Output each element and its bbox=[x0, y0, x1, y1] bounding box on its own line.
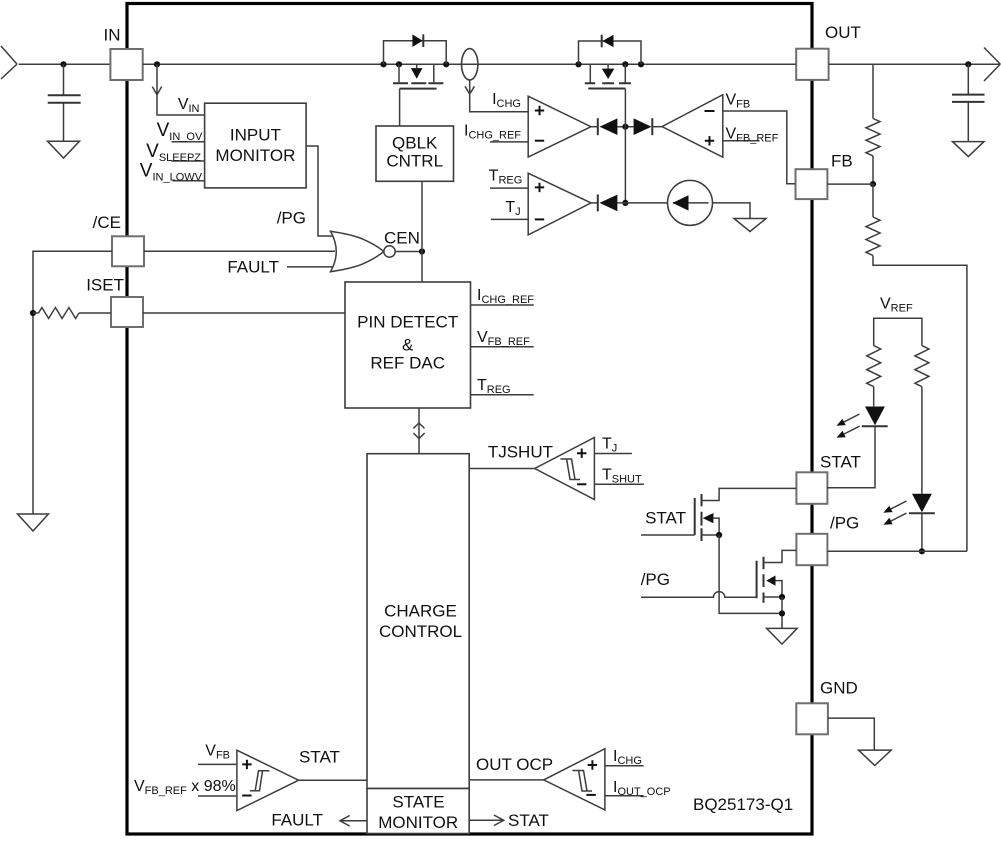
IC boundary BQ25173-Q1 bbox=[127, 4, 812, 835]
wire TJSHUT bbox=[469, 468, 535, 470]
svg-text:MONITOR: MONITOR bbox=[215, 146, 295, 165]
stub VSLEEPZ bbox=[172, 160, 205, 162]
resistor R-PG-LED bbox=[915, 346, 929, 387]
svg-text:STAT: STAT bbox=[508, 811, 549, 830]
node rail x578.5 bbox=[575, 61, 581, 67]
diode D4 bbox=[597, 194, 599, 211]
arrow STAT out bbox=[469, 819, 503, 821]
node /PG net bbox=[919, 548, 925, 554]
wire FB node down bbox=[872, 184, 874, 217]
node Q3 source bbox=[716, 532, 722, 538]
wire /PG gate with hop bbox=[641, 592, 757, 598]
node rail x383.5 bbox=[380, 61, 386, 67]
stub TREG bbox=[490, 187, 528, 189]
svg-text:FB: FB bbox=[831, 152, 853, 171]
wire node to source bbox=[617, 202, 667, 204]
current sense element bbox=[462, 49, 478, 80]
stub IOUT_OCP bbox=[605, 795, 644, 797]
wire R to LED2 bbox=[921, 387, 923, 494]
wire /PG to gate bbox=[306, 146, 334, 236]
svg-text:CEN: CEN bbox=[384, 229, 420, 248]
diode D3 bbox=[634, 118, 652, 135]
ground fets bbox=[767, 628, 798, 644]
pin IN bbox=[110, 49, 142, 80]
pin GND bbox=[796, 703, 828, 734]
node rail x446.2 bbox=[443, 61, 449, 67]
ground input cap bbox=[48, 141, 80, 158]
wire Q4 source down bbox=[781, 597, 783, 628]
wire Q1 gate bbox=[399, 89, 401, 126]
stub VFB_REF x98 bbox=[198, 795, 237, 797]
svg-text:STATE: STATE bbox=[392, 793, 444, 812]
wire STAT out bbox=[299, 779, 367, 781]
wire main rail IN to OUT bbox=[143, 63, 797, 65]
wire CEN vertical bbox=[421, 181, 423, 282]
svg-text:MONITOR: MONITOR bbox=[378, 813, 458, 832]
svg-text:INPUT: INPUT bbox=[230, 126, 281, 145]
LED D7 /PG bbox=[912, 494, 932, 513]
svg-text:FAULT: FAULT bbox=[271, 811, 323, 830]
wire ICHG sense bbox=[470, 80, 529, 112]
block STATE MONITOR bbox=[367, 789, 469, 834]
stub VFB stat bbox=[198, 763, 237, 765]
wire Q2 diode loop bbox=[579, 41, 642, 64]
wire gate node vertical bbox=[624, 89, 626, 203]
wire U4 out bbox=[591, 202, 598, 204]
block QBLK CNTRL bbox=[376, 126, 454, 181]
stub VIN_LOWV bbox=[173, 180, 205, 182]
diode D1 bbox=[412, 34, 422, 47]
input terminal arrow bbox=[1, 46, 17, 79]
output terminal arrow bbox=[984, 48, 1000, 82]
block CHARGE CONTROL bbox=[367, 454, 469, 789]
pin /CE bbox=[112, 236, 144, 266]
comparator U5 VFB bbox=[662, 95, 723, 158]
svg-text:STAT: STAT bbox=[645, 509, 686, 528]
stub TJ bbox=[491, 218, 528, 220]
wire /CE left bbox=[33, 251, 112, 514]
svg-text:OUT OCP: OUT OCP bbox=[476, 755, 553, 774]
arrow FAULT out bbox=[341, 820, 367, 822]
svg-text:CHARGE: CHARGE bbox=[384, 602, 457, 621]
ground current source bbox=[734, 219, 766, 232]
comparator U3 ICHG bbox=[528, 96, 591, 157]
stub VIN_OV bbox=[172, 141, 205, 143]
stub ICHG ocp bbox=[605, 765, 644, 767]
wire OUT OCP bbox=[469, 779, 544, 781]
node ISET gnd net bbox=[30, 310, 36, 316]
comparator U8 STAT bbox=[237, 750, 299, 810]
wire IN rail outside bbox=[19, 63, 111, 65]
node input cap bbox=[60, 61, 66, 67]
ground GND pin bbox=[859, 750, 892, 765]
node CEN bbox=[419, 248, 425, 254]
capacitor C2 output bbox=[967, 64, 969, 141]
diode D5 bbox=[601, 35, 603, 48]
current source I1 bbox=[668, 180, 713, 225]
transistor Q4 /PG bbox=[756, 561, 758, 599]
svg-text:FAULT: FAULT bbox=[227, 258, 279, 277]
wire CEN bbox=[395, 251, 422, 253]
ground output cap bbox=[953, 142, 985, 157]
wire VFB to FB pin bbox=[723, 111, 796, 184]
pin /PG bbox=[796, 534, 827, 565]
stub TSHUT bbox=[594, 483, 644, 485]
resistor R-FB-top bbox=[866, 119, 880, 156]
stub TREG out bbox=[471, 394, 534, 396]
svg-text:CONTROL: CONTROL bbox=[379, 622, 462, 641]
svg-text:STAT: STAT bbox=[299, 748, 340, 767]
transistor Q1 bbox=[399, 64, 434, 82]
resistor R-FB-bottom bbox=[866, 217, 880, 256]
wire /CE to gate bbox=[144, 250, 335, 252]
wire LED2 to /PG net bbox=[921, 513, 923, 551]
pin FB bbox=[796, 169, 828, 199]
comparator U7 OUT OCP bbox=[544, 749, 605, 810]
LED D6 STAT bbox=[865, 407, 885, 426]
stub TJ shut bbox=[594, 453, 632, 455]
svg-text:STAT: STAT bbox=[820, 453, 861, 472]
block PIN DETECT REF DAC bbox=[345, 282, 471, 408]
block INPUT MONITOR bbox=[205, 103, 307, 188]
node output cap bbox=[965, 61, 971, 67]
node TREG diode bbox=[622, 200, 628, 206]
wire GND to ground bbox=[828, 718, 874, 750]
wire R to LED1 bbox=[873, 387, 875, 407]
node Q4 source bbox=[779, 594, 785, 600]
wire VIN sense bbox=[157, 64, 205, 115]
wire diode node top bbox=[617, 126, 633, 128]
node rail x399 bbox=[396, 61, 402, 67]
svg-text:IN: IN bbox=[104, 26, 121, 45]
node fet gnd bbox=[779, 610, 785, 616]
svg-text:&: & bbox=[402, 336, 414, 355]
wire FB pin to node bbox=[827, 183, 873, 185]
comparator U4 TREG bbox=[528, 173, 591, 235]
stub ICHG_REF out bbox=[471, 304, 534, 306]
wire Q1 diode loop bbox=[384, 41, 447, 65]
svg-text:TJSHUT: TJSHUT bbox=[488, 443, 553, 462]
transistor Q3 STAT bbox=[694, 498, 696, 535]
svg-text:ISET: ISET bbox=[86, 276, 124, 295]
svg-text:CNTRL: CNTRL bbox=[386, 152, 443, 171]
svg-text:/CE: /CE bbox=[93, 213, 121, 232]
resistor R-STAT-LED bbox=[867, 346, 881, 387]
node rail x641 bbox=[638, 61, 644, 67]
svg-text:OUT: OUT bbox=[825, 23, 861, 42]
wire STAT gate bbox=[641, 534, 695, 536]
node FB bbox=[870, 181, 876, 187]
svg-text:REF DAC: REF DAC bbox=[370, 354, 445, 373]
stub ICHG_REF bbox=[490, 141, 528, 143]
svg-text:PIN DETECT: PIN DETECT bbox=[357, 313, 458, 332]
wire R to FB node bbox=[872, 156, 874, 184]
diode D2 bbox=[597, 118, 599, 135]
node rail x157 bbox=[154, 61, 160, 67]
node rail x625.3 bbox=[622, 61, 628, 67]
stub VFB_REF bbox=[723, 140, 760, 142]
pin ISET bbox=[111, 297, 143, 327]
wire OUT rail bbox=[829, 63, 1000, 65]
wire to U5 bbox=[652, 126, 662, 128]
wire ISET to PIN DETECT bbox=[143, 312, 345, 314]
wire Q3 source down bbox=[719, 535, 782, 613]
svg-text:/PG: /PG bbox=[641, 570, 670, 589]
wire /PG pin right bbox=[827, 550, 967, 552]
wire source to gnd bbox=[713, 203, 751, 219]
wire R bottom to /PG net bbox=[873, 256, 967, 552]
stub VFB_REF out bbox=[471, 346, 534, 348]
svg-text:GND: GND bbox=[820, 679, 858, 698]
ground /CE net bbox=[18, 514, 49, 531]
wire U3 out bbox=[591, 126, 598, 128]
node gate drive bbox=[622, 124, 628, 130]
bus arrow PIN DETECT to CHARGE CONTROL bbox=[418, 408, 420, 454]
svg-text:BQ25173-Q1: BQ25173-Q1 bbox=[693, 795, 793, 814]
wire LED1 to STAT pin bbox=[827, 426, 875, 487]
svg-text:QBLK: QBLK bbox=[392, 134, 438, 153]
capacitor C1 input bbox=[63, 64, 65, 141]
transistor Q2 bbox=[590, 64, 625, 82]
pin OUT bbox=[796, 49, 828, 80]
comparator U6 TJSHUT bbox=[535, 438, 595, 500]
NOR gate CEN bbox=[331, 231, 384, 271]
pin STAT bbox=[796, 472, 827, 504]
resistor R-ISET bbox=[39, 308, 80, 319]
svg-text:/PG: /PG bbox=[277, 209, 306, 228]
wire VREF bracket bbox=[874, 318, 922, 345]
wire OUT to R top bbox=[872, 64, 874, 118]
svg-text:/PG: /PG bbox=[830, 514, 859, 533]
